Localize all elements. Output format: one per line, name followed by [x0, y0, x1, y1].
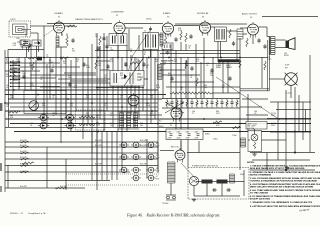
capacitor C16 [210, 68, 213, 73]
svg-text:3.3M: 3.3M [86, 67, 90, 69]
label R49 [96, 123, 101, 127]
svg-text:4.7M: 4.7M [30, 85, 34, 87]
switch contacts [13, 64, 18, 80]
coil L4 [160, 33, 163, 46]
shield enclosure [240, 40, 269, 91]
wire [130, 55, 132, 115]
wire fan drop [101, 132, 103, 181]
resistor R1 [66, 36, 68, 46]
scan artifact [0, 163, 2, 171]
wire [239, 38, 241, 170]
wire [154, 57, 156, 119]
filament wire [5, 158, 158, 160]
wire [60, 57, 62, 143]
svg-text:POWER SUPPLY CIRCUITS S1: POWER SUPPLY CIRCUITS S1 [192, 165, 218, 167]
filament wire [5, 171, 130, 173]
resistor R18 [180, 31, 182, 40]
wire [275, 39, 286, 41]
wire plate [128, 29, 130, 51]
wire [266, 27, 268, 37]
wire [40, 86, 140, 88]
wire [200, 62, 202, 98]
tube socket X136-157 [131, 154, 141, 160]
resistor R2 [99, 36, 101, 45]
filament wire [5, 165, 158, 167]
wire [309, 55, 311, 152]
wire [28, 47, 30, 52]
resistor R50 [213, 121, 222, 123]
svg-text:150: 150 [63, 63, 66, 65]
wire top right [262, 16, 318, 18]
svg-text:T2: T2 [144, 30, 146, 32]
wire [96, 60, 110, 62]
wire junction [151, 110, 153, 112]
resistor R24 [67, 25, 77, 27]
resistor fan y172 [20, 171, 29, 173]
wire [126, 45, 128, 131]
label C37 [168, 103, 171, 107]
svg-text:R-00 47K: R-00 47K [20, 140, 28, 142]
label C44 [254, 111, 257, 115]
wire [146, 57, 148, 131]
wire [275, 47, 286, 49]
svg-text:4. ON PORTABLE OPERATION BATT: 4. ON PORTABLE OPERATION BATTERY SUPPLIE… [250, 183, 320, 186]
label C11 [98, 63, 101, 67]
wire [150, 49, 152, 123]
IF transformer T2 [143, 33, 159, 50]
resistor R5 heater string [170, 92, 212, 94]
svg-text:R-00 47K: R-00 47K [140, 140, 148, 142]
label LS1 [284, 53, 289, 57]
wire [248, 139, 250, 141]
wire junction [285, 169, 287, 171]
scan artifact [0, 186, 2, 192]
tube socket X151-157 [146, 154, 156, 160]
wire [175, 50, 177, 131]
label C29 [74, 85, 77, 89]
note box lamp [246, 122, 267, 130]
tone control box [76, 110, 106, 130]
svg-text:NOTES:: NOTES: [247, 162, 255, 164]
wire junction [239, 57, 241, 59]
svg-text:AUDIO OUTPUT: AUDIO OUTPUT [242, 12, 258, 15]
svg-text:R-00 47K: R-00 47K [20, 186, 28, 188]
svg-text:V2: V2 [116, 15, 118, 17]
bus AVC line [95, 50, 240, 52]
label C35 [6, 104, 9, 108]
svg-text:OUT: OUT [268, 59, 272, 61]
svg-text:E AVC: E AVC [205, 133, 211, 136]
svg-text:510: 510 [70, 105, 73, 107]
wire junction [175, 118, 177, 120]
svg-text:PL-103: PL-103 [286, 93, 292, 95]
wire [125, 27, 143, 29]
label R17 [218, 63, 222, 67]
wire [43, 26, 45, 119]
wire [277, 102, 279, 160]
svg-text:.05: .05 [6, 87, 8, 89]
wire [138, 60, 140, 119]
label C24 [40, 77, 43, 81]
wire [146, 139, 148, 178]
svg-text:6. DC RESISTANCE OF TRANSFORM: 6. DC RESISTANCE OF TRANSFORMER WINDINGS… [250, 195, 320, 198]
wire [247, 94, 249, 131]
wire [58, 78, 148, 80]
wire [221, 184, 223, 197]
filament wire [5, 187, 85, 189]
svg-text:470: 470 [72, 51, 75, 53]
oscillator coil T1 [109, 34, 127, 46]
label C38 [52, 113, 55, 117]
resistor R12 [130, 62, 140, 64]
wire [211, 26, 215, 28]
wave trap Z1 [21, 40, 30, 47]
wire [121, 57, 123, 170]
svg-text:2. SPEAKER VOLTAGE 3.2 OHMS C: 2. SPEAKER VOLTAGE 3.2 OHMS CAPACITOR VA… [250, 171, 320, 174]
svg-text:7. SPEAKER VOICE COIL IMPEDAN: 7. SPEAKER VOICE COIL IMPEDANCE 3.2 OHMS… [250, 201, 313, 204]
svg-text:R-00 47K: R-00 47K [95, 140, 103, 142]
wire [4, 50, 6, 192]
resistor fan y142 [20, 141, 29, 143]
capacitor C10 [82, 62, 85, 67]
wire [82, 57, 84, 139]
resistor R4 [246, 38, 248, 47]
wire [167, 34, 169, 36]
svg-text:05: 05 [130, 51, 132, 53]
wire [262, 139, 287, 141]
power supply dashed box [188, 168, 249, 200]
component blob [37, 57, 42, 61]
label R28 [68, 75, 72, 79]
label C9 [130, 49, 132, 53]
svg-text:2-14: 2-14 [13, 45, 16, 47]
wire junction [121, 106, 123, 108]
label C32 [222, 85, 225, 89]
tube socket X151-145 [146, 142, 156, 148]
wire [185, 60, 187, 98]
wire [170, 81, 214, 83]
svg-text:R-00 47K: R-00 47K [95, 145, 103, 147]
label R42 [86, 113, 89, 117]
label C13 [146, 65, 149, 69]
wire [240, 106, 262, 108]
wire [26, 47, 28, 58]
capacitor C9 [68, 82, 71, 87]
svg-text:V5: V5 [250, 17, 252, 19]
wire fan drop [96, 132, 98, 181]
wire [66, 173, 160, 175]
wire [10, 82, 122, 84]
svg-text:Tuning Bench p. 7A: Tuning Bench p. 7A [28, 212, 46, 215]
wire [227, 62, 229, 93]
wire junction [133, 118, 135, 120]
wire [65, 25, 76, 27]
label C28 [6, 85, 9, 89]
tube V2 [114, 20, 125, 36]
svg-text:150: 150 [95, 36, 98, 38]
svg-text:R-00 47K: R-00 47K [20, 171, 28, 173]
wire [31, 25, 45, 27]
wire junction [13, 89, 15, 91]
svg-text:.01: .01 [168, 105, 170, 107]
label C12 [124, 63, 127, 67]
wire [157, 50, 159, 170]
wire [185, 44, 187, 51]
svg-text:10M: 10M [22, 73, 26, 75]
svg-text:47: 47 [156, 155, 158, 157]
AC plug P1 [166, 196, 176, 200]
svg-text:.02: .02 [52, 115, 54, 117]
label C17 [228, 65, 231, 69]
wire [112, 57, 114, 127]
label R2 [6, 59, 9, 63]
label T4 [268, 57, 272, 61]
label R30 [168, 73, 173, 77]
tube socket X136-145 [131, 142, 141, 148]
svg-text:5962-46 — 74: 5962-46 — 74 [10, 213, 24, 215]
svg-text:VOL: VOL [42, 105, 45, 107]
label TO V4 [271, 123, 276, 127]
wire [162, 49, 164, 99]
svg-text:R-00 47K: R-00 47K [95, 164, 103, 166]
svg-text:10: 10 [146, 67, 148, 69]
capacitor C4B [96, 46, 99, 51]
wire [18, 57, 20, 90]
label C27 [190, 75, 193, 79]
svg-text:20UF: 20UF [168, 138, 172, 140]
label C39 [110, 113, 113, 117]
wire [44, 25, 54, 27]
resistor R23 [229, 29, 231, 38]
wire [213, 181, 217, 183]
svg-text:SPKR: SPKR [284, 55, 289, 57]
bus [5, 118, 311, 120]
capacitor C19 [189, 34, 192, 39]
bus [5, 110, 158, 112]
sub-chassis box [24, 91, 66, 114]
wire cap bank to rectifier [180, 141, 182, 150]
wire [20, 66, 80, 68]
dial cord lower [125, 55, 133, 83]
wire [212, 57, 214, 98]
wire [66, 184, 160, 186]
svg-text:.02: .02 [130, 87, 132, 89]
label R16 [196, 59, 199, 63]
svg-text:.05: .05 [110, 115, 112, 117]
svg-text:20UF: 20UF [195, 138, 199, 140]
wire [180, 42, 182, 51]
resistor fan y165.5 [20, 165, 29, 167]
wire [243, 33, 247, 35]
wire [243, 170, 245, 196]
bus ladder bottom [162, 107, 240, 109]
label R25 [42, 103, 45, 107]
svg-text:130: 130 [86, 115, 89, 117]
diode CR4 [65, 122, 76, 129]
label R27 [6, 74, 11, 78]
crossover wire a [165, 102, 184, 113]
label C4 [95, 34, 98, 38]
label C43 [170, 123, 173, 127]
wire [56, 46, 67, 48]
capacitor C5 [174, 37, 177, 42]
label C25 [104, 75, 107, 79]
label C15 [185, 63, 188, 67]
wire [31, 32, 39, 34]
wire [162, 74, 200, 76]
tube socket X136-178 [131, 175, 141, 181]
bus [5, 102, 158, 104]
capacitor C4 [102, 36, 105, 41]
label C10 [76, 59, 79, 63]
wire [134, 57, 136, 127]
wire [87, 57, 89, 123]
bus ground [14, 131, 311, 133]
svg-text:30: 30 [170, 125, 172, 127]
wire [254, 129, 256, 134]
label R39 [70, 103, 73, 107]
coil can L5 [162, 43, 173, 50]
wire [60, 47, 62, 58]
bus ladder top [162, 98, 240, 100]
label R46 [140, 123, 143, 127]
resistor R10 [60, 57, 69, 59]
label C7 [10, 67, 12, 71]
svg-text:DET AVC AF: DET AVC AF [197, 12, 209, 15]
resistor fan y153 [20, 152, 29, 154]
label R48 [96, 115, 99, 119]
wire [142, 49, 144, 111]
capacitor C3 [71, 38, 74, 43]
wire [46, 64, 48, 127]
svg-text:.05: .05 [254, 113, 256, 115]
wire junction [239, 123, 241, 125]
wire right h2 [276, 109, 311, 111]
resistor R8 [13, 70, 15, 79]
svg-text:455 KC: 455 KC [146, 19, 152, 21]
wire junction [203, 118, 205, 120]
label R1 [72, 49, 75, 53]
label R11 [86, 65, 90, 69]
capacitor C45 [263, 44, 266, 49]
label R12 [110, 59, 114, 63]
capacitor C17 [228, 76, 231, 81]
tube V3 [162, 21, 173, 37]
bus [5, 94, 166, 96]
tube socket X124-145 [119, 142, 129, 148]
label R47 [216, 123, 220, 127]
loop antenna LP1 [9, 21, 31, 37]
svg-text:.02: .02 [16, 61, 18, 63]
wire [203, 38, 205, 98]
wire junction [97, 131, 99, 133]
svg-text:820: 820 [120, 75, 123, 77]
wire cap bank drop [198, 141, 200, 153]
svg-text:8. LETTER A AT SELECTOR SWITC: 8. LETTER A AT SELECTOR SWITCH INDICATES… [250, 205, 320, 208]
coil L3 [241, 138, 246, 147]
wire [261, 57, 263, 88]
filament wire [5, 180, 110, 182]
wire right h1 [270, 101, 311, 103]
svg-text:V4: V4 [202, 17, 204, 19]
phone jack J1 [285, 73, 298, 86]
wire [250, 169, 315, 171]
svg-text:RF AMPL: RF AMPL [55, 12, 64, 15]
wire [266, 153, 268, 171]
crossover wire b [165, 102, 184, 113]
wire [166, 194, 176, 196]
label R18 [178, 28, 182, 32]
wire [187, 57, 189, 167]
svg-text:.01: .01 [52, 97, 54, 99]
ground G3 [165, 51, 169, 55]
svg-text:R-00 47K: R-00 47K [60, 186, 68, 188]
label C14 [163, 62, 166, 66]
label C9 [52, 65, 54, 69]
svg-text:2.2M: 2.2M [178, 30, 182, 32]
svg-text:.02: .02 [110, 125, 112, 127]
label R31 [210, 73, 214, 77]
component ladder row [166, 99, 238, 109]
svg-text:R-00 47K: R-00 47K [140, 145, 148, 147]
capacitor C22 [226, 188, 231, 191]
loudspeaker LS1 [286, 38, 296, 50]
ground [252, 153, 256, 157]
tube socket X151-170 [146, 167, 156, 173]
svg-text:V1: V1 [58, 16, 60, 18]
wire [285, 90, 287, 168]
svg-text:5. ALL TUBE SHIELDS AND TUBE: 5. ALL TUBE SHIELDS AND TUBE SOCKET CENT… [250, 189, 320, 192]
svg-text:20UF: 20UF [177, 138, 181, 140]
wire [70, 80, 108, 82]
wire [250, 152, 315, 154]
label R38 [150, 95, 154, 99]
resistor R9 [32, 62, 34, 70]
dial cord mid [124, 57, 144, 86]
svg-text:250: 250 [185, 65, 188, 67]
wire [220, 42, 222, 58]
resistor R16b [55, 187, 67, 189]
dial cord upper [133, 29, 151, 55]
band switch S1A wafer [10, 61, 20, 87]
label R44 [216, 111, 220, 115]
svg-text:.02: .02 [120, 97, 122, 99]
label R45 [70, 123, 74, 127]
link diagonal [181, 163, 197, 180]
wire [91, 44, 93, 153]
wire [195, 44, 197, 98]
svg-text:100: 100 [98, 65, 101, 67]
wire [96, 87, 144, 89]
resistor R48 [79, 116, 95, 118]
label C3 [46, 55, 48, 59]
svg-text:EXCEPT AS NOTED: EXCEPT AS NOTED [250, 198, 271, 201]
label R33 [96, 87, 100, 91]
capacitor C8 [50, 68, 53, 73]
svg-text:120: 120 [204, 87, 207, 89]
svg-text:R-00 47K: R-00 47K [20, 164, 28, 166]
label RECORD CHANGER [218, 59, 240, 62]
svg-text:100: 100 [74, 87, 77, 89]
capacitor C6 [257, 38, 260, 43]
svg-text:LOOP: LOOP [10, 19, 16, 21]
resistor R6 [28, 57, 40, 59]
svg-text:47: 47 [156, 143, 158, 145]
wire [8, 49, 44, 51]
wire [236, 39, 238, 62]
wire [99, 46, 101, 119]
wire [170, 183, 172, 195]
